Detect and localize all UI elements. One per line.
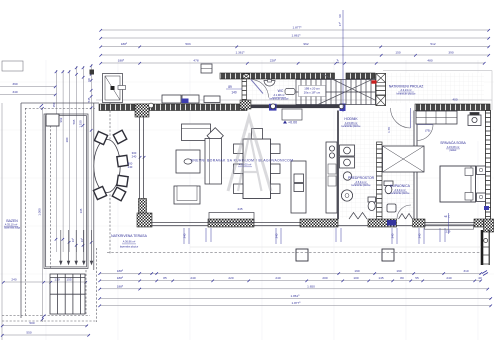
- door swing marks south doors: [349, 213, 413, 220]
- svg-text:80: 80: [400, 276, 404, 280]
- svg-text:55: 55: [415, 276, 419, 280]
- dim line T4: [101, 54, 489, 56]
- kitchen wall counter: [326, 142, 337, 213]
- svg-text:parket: parket: [450, 149, 457, 152]
- svg-text:1.361⁵: 1.361⁵: [235, 51, 245, 55]
- svg-text:240: 240: [183, 233, 187, 238]
- pool basin walls: [44, 103, 94, 270]
- stair cross X: [318, 74, 384, 105]
- svg-text:188⁵: 188⁵: [117, 284, 124, 288]
- dresser: [468, 113, 481, 126]
- shower: [383, 146, 425, 172]
- svg-text:135: 135: [79, 208, 83, 213]
- outdoor oval dining table: [94, 140, 120, 193]
- svg-text:KUPAONICA: KUPAONICA: [390, 184, 410, 188]
- dim line T2: [101, 37, 489, 39]
- svg-text:240: 240: [275, 233, 279, 238]
- pool surround dashed offsets: [2, 103, 110, 322]
- pool waterline dashed: [50, 114, 52, 268]
- door arc kupaonica: [397, 205, 411, 219]
- pool surround outer boundary: [21, 103, 99, 318]
- svg-text:1.861⁵: 1.861⁵: [290, 294, 300, 298]
- svg-text:20a x 18⁵ cm: 20a x 18⁵ cm: [304, 91, 321, 95]
- svg-text:240: 240: [446, 276, 451, 280]
- svg-text:NATKRIVENI PROLAZ: NATKRIVENI PROLAZ: [389, 85, 424, 89]
- svg-text:89: 89: [228, 85, 232, 89]
- nightstands: [477, 166, 486, 202]
- svg-text:240: 240: [418, 233, 422, 238]
- svg-text:A 36,96 m²: A 36,96 m²: [123, 240, 136, 244]
- kitchen island: [291, 161, 306, 213]
- terrace east edge wall: [482, 230, 489, 265]
- blue block in south wall: [387, 220, 396, 226]
- dim line B2: [100, 280, 481, 282]
- svg-text:keramicke plocice: keramicke plocice: [397, 92, 417, 95]
- wall: west solid segment: [139, 199, 147, 214]
- south facade: window thin double lines: [152, 223, 474, 226]
- level marker: [128, 85, 489, 234]
- wall: north wall of living area: [99, 104, 247, 111]
- svg-text:155: 155: [66, 278, 71, 282]
- wall: upper north wall (wc/stairs): [220, 73, 335, 79]
- svg-text:400: 400: [452, 98, 457, 102]
- dim line B4: [100, 297, 491, 299]
- svg-text:962: 962: [59, 117, 63, 122]
- svg-text:962: 962: [303, 42, 308, 46]
- wc sink: [264, 81, 275, 87]
- svg-text:(79): (79): [425, 129, 430, 133]
- svg-text:bazenske plocice: bazenske plocice: [120, 245, 139, 248]
- wall: stair east column: [376, 74, 386, 106]
- south wall checkered segments: [208, 219, 254, 227]
- svg-text:WC: WC: [278, 89, 284, 93]
- column block with X at WC west: [243, 74, 250, 79]
- coffee table: [176, 150, 200, 173]
- svg-text:1.70: 1.70: [387, 127, 391, 133]
- faint floor grid: [0, 60, 494, 340]
- svg-text:BAZEN: BAZEN: [6, 219, 18, 223]
- blue paired dims below south wall: [184, 228, 424, 244]
- svg-text:100: 100: [353, 276, 358, 280]
- pool stairs block: [50, 274, 85, 314]
- dim line pool 500: [2, 325, 88, 327]
- svg-text:145: 145: [378, 276, 383, 280]
- toilet predprostor: [368, 197, 376, 211]
- dim line T1: [101, 29, 489, 31]
- dining table: [243, 139, 271, 199]
- blue element at partition ends: [269, 104, 277, 111]
- west window double line: [140, 117, 144, 199]
- wall: bath west stub: [337, 111, 339, 220]
- svg-text:480: 480: [427, 59, 432, 63]
- svg-text:keramicke plocice: keramicke plocice: [342, 125, 362, 128]
- svg-text:keramicke plocice: keramicke plocice: [270, 97, 290, 100]
- svg-text:+0.00: +0.00: [288, 120, 297, 124]
- svg-text:228⁵: 228⁵: [270, 59, 277, 63]
- wall: bedroom north: [415, 104, 490, 111]
- svg-text:PREDPROSTOR: PREDPROSTOR: [348, 176, 375, 180]
- vertical dim line inside pool: [42, 108, 44, 322]
- svg-text:220: 220: [228, 276, 233, 280]
- svg-text:190: 190: [354, 269, 359, 273]
- svg-text:NATKRIVENA TERASA: NATKRIVENA TERASA: [111, 234, 147, 238]
- door arc bedroom: [417, 125, 433, 141]
- svg-text:90: 90: [338, 14, 342, 18]
- skylight window above wall: [103, 74, 123, 103]
- dining chairs: [234, 129, 281, 194]
- svg-text:390: 390: [12, 82, 17, 86]
- svg-text:188⁵: 188⁵: [117, 269, 124, 273]
- pool skimmer box: [46, 114, 59, 126]
- dim line B5: [100, 305, 491, 307]
- dim line T3: [101, 46, 489, 48]
- svg-text:A 60,00 m²: A 60,00 m²: [239, 163, 252, 167]
- kitchen north counters: [162, 95, 220, 103]
- wall corner block SE: [484, 219, 494, 232]
- vertical dim fan left of house: [55, 70, 57, 252]
- wall: bedroom west: [414, 111, 417, 220]
- svg-text:keramicke plocice: keramicke plocice: [352, 184, 372, 187]
- chimney box: [201, 64, 212, 73]
- dim line T5: [101, 62, 485, 64]
- svg-text:310: 310: [463, 269, 468, 273]
- glass partition band with end dots: [240, 100, 251, 109]
- stair block treads: [296, 80, 376, 105]
- svg-text:240: 240: [275, 276, 280, 280]
- bidet: [387, 204, 396, 212]
- svg-text:240: 240: [11, 278, 16, 282]
- svg-text:150: 150: [395, 51, 400, 55]
- terrace inner light line: [190, 246, 481, 248]
- upper cabinet at partition: [282, 109, 302, 120]
- sofa: [182, 124, 224, 184]
- svg-text:1.877⁵: 1.877⁵: [292, 26, 302, 30]
- extra blue pair dims: [206, 228, 445, 242]
- svg-text:keramicke plocice: keramicke plocice: [391, 192, 411, 195]
- red marker: [372, 80, 377, 83]
- svg-text:219: 219: [446, 230, 451, 234]
- svg-text:200: 200: [322, 276, 327, 280]
- stair label box: [299, 86, 326, 97]
- wall corner block NW living: [135, 104, 149, 117]
- wardrobe: [416, 111, 457, 124]
- small pillar left of skylight: [90, 70, 95, 75]
- dim line pool 550: [2, 334, 90, 336]
- wc toilet: [285, 89, 295, 95]
- svg-text:1.861⁵: 1.861⁵: [291, 34, 301, 38]
- watermark logo triangle: [228, 117, 271, 191]
- dim line left 340: [0, 94, 56, 96]
- svg-text:550: 550: [26, 331, 31, 335]
- svg-text:1.000: 1.000: [38, 208, 42, 216]
- svg-text:85: 85: [163, 276, 167, 280]
- dim line B1: [100, 272, 481, 274]
- rotated small dims: [38, 58, 422, 242]
- svg-text:503: 503: [185, 42, 190, 46]
- column circle at NW corner: [149, 103, 154, 108]
- wc door arc: [251, 80, 269, 98]
- wall: vertical connector west of WC: [242, 79, 247, 105]
- terrace dashed edge: [107, 252, 481, 254]
- dim line pool width: [3, 281, 87, 283]
- svg-text:40: 40: [478, 276, 482, 280]
- svg-text:188⁵: 188⁵: [121, 42, 128, 46]
- svg-text:DNEVNI BORAVAK SA KUHINJOM I B: DNEVNI BORAVAK SA KUHINJOM I BLAGOVAONIC…: [191, 159, 294, 163]
- svg-text:150: 150: [52, 102, 56, 107]
- pool depth arrows: [60, 230, 93, 265]
- svg-text:190: 190: [396, 269, 401, 273]
- svg-text:188⁵: 188⁵: [118, 59, 125, 63]
- wall: bedroom east: [486, 111, 491, 220]
- svg-text:340: 340: [12, 90, 17, 94]
- svg-text:240: 240: [190, 276, 195, 280]
- armchair: [174, 186, 200, 204]
- svg-text:HODNIK: HODNIK: [344, 117, 358, 121]
- dim line B3: [100, 288, 488, 290]
- svg-text:200: 200: [65, 137, 69, 142]
- svg-text:478: 478: [193, 59, 198, 63]
- svg-text:bazenska folija: bazenska folija: [4, 227, 20, 230]
- svg-text:240: 240: [391, 233, 395, 238]
- svg-text:1.650: 1.650: [307, 284, 315, 288]
- dim line left 390: [0, 86, 56, 88]
- wall: bath divider: [377, 142, 383, 219]
- svg-text:44 C: 44 C: [444, 215, 450, 219]
- svg-text:1.877⁵: 1.877⁵: [291, 301, 301, 305]
- svg-text:1.520: 1.520: [79, 120, 83, 128]
- door arc hodnik-prolaz: [391, 108, 411, 128]
- sliding door leaf rect: [209, 213, 254, 223]
- blue tick bottom right terrace: [482, 271, 488, 276]
- svg-text:595: 595: [72, 119, 76, 124]
- toilet kupaonica: [384, 181, 393, 194]
- svg-text:140: 140: [231, 90, 237, 94]
- bed: [440, 166, 476, 202]
- svg-text:390: 390: [448, 51, 453, 55]
- box top-left: [2, 61, 23, 71]
- svg-text:SPAVAĆA SOBA: SPAVAĆA SOBA: [440, 140, 466, 145]
- label underlines: [4, 92, 460, 244]
- svg-text:240: 240: [128, 165, 133, 169]
- svg-text:500: 500: [29, 321, 34, 325]
- svg-text:545: 545: [87, 97, 91, 102]
- svg-text:188⁵: 188⁵: [117, 276, 124, 280]
- blue tick pool top-left: [40, 104, 44, 108]
- svg-text:245: 245: [237, 207, 242, 211]
- terrace columns: [296, 249, 394, 261]
- outdoor chairs: [93, 130, 128, 201]
- vertical dim line far left: [1, 103, 3, 340]
- svg-text:512: 512: [430, 42, 435, 46]
- svg-text:240: 240: [132, 155, 137, 159]
- roof overhang light lines: [96, 71, 492, 111]
- blue vertical dim through wall gap: [342, 10, 344, 112]
- svg-text:90: 90: [87, 78, 91, 82]
- wall corner block SW: [137, 213, 152, 227]
